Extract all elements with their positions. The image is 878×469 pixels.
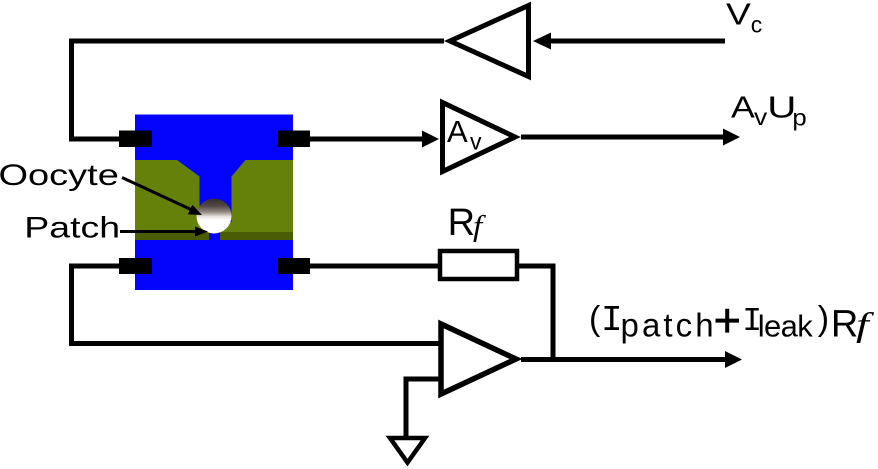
svg-text:R: R <box>448 202 475 244</box>
svg-text:patch: patch <box>621 307 717 344</box>
svg-text:A: A <box>731 91 756 125</box>
svg-text:v: v <box>470 129 482 155</box>
svg-text:V: V <box>726 0 751 32</box>
svg-text:A: A <box>447 114 468 149</box>
svg-text:v: v <box>754 106 768 131</box>
svg-text:p: p <box>792 106 806 131</box>
svg-text:(: ( <box>589 300 601 338</box>
svg-text:c: c <box>751 12 763 38</box>
svg-text:R: R <box>831 304 858 346</box>
svg-text:leak: leak <box>758 309 814 344</box>
svg-text:Patch: Patch <box>24 211 120 245</box>
svg-text:I: I <box>601 300 623 341</box>
svg-text:Oocyte: Oocyte <box>0 159 119 192</box>
svg-text:): ) <box>818 300 829 338</box>
